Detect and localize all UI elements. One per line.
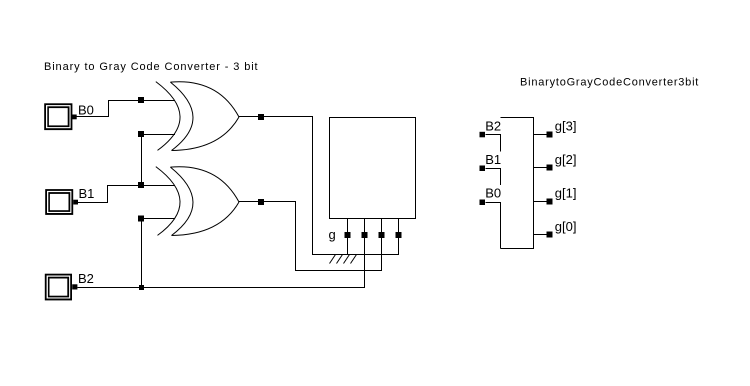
- pin of port B1: [73, 200, 78, 205]
- pin of port B2: [72, 284, 77, 289]
- symbol input B0 stub: [486, 203, 501, 249]
- svg-text:B0: B0: [78, 103, 94, 118]
- junction on U2 input 1: [138, 182, 144, 188]
- svg-text:B1: B1: [485, 152, 501, 167]
- bus combiner block U3: [330, 118, 416, 219]
- wire B1 to XOR U2 input 1: [78, 186, 176, 203]
- symbol input B2 stub: [486, 135, 501, 152]
- svg-text:g: g: [329, 227, 336, 242]
- wire U1.in2 to B1 net (vertical): [141, 135, 143, 186]
- pin of port B0: [72, 115, 77, 120]
- symbol output pin g0: [547, 232, 553, 238]
- junction B2/U2.in2 tee: [139, 285, 144, 290]
- wire U1 input 2 stub: [142, 134, 176, 136]
- symbol input pin B1: [480, 166, 486, 172]
- input port B0: [44, 103, 72, 130]
- symbol input pin B0: [480, 200, 486, 206]
- junction on U2 output: [258, 199, 264, 205]
- wire U2.in2 to B2 net (vertical): [141, 219, 143, 288]
- junction on U2 input 2: [138, 216, 144, 222]
- svg-text:B2: B2: [485, 118, 501, 133]
- symbol output pin g3: [547, 132, 553, 138]
- XOR gate U2: [156, 167, 239, 236]
- symbol output g3 stub: [534, 134, 547, 136]
- symbol output g0 stub: [534, 234, 547, 236]
- input port B1: [45, 189, 73, 215]
- svg-text:BinarytoGrayCodeConverter3bit: BinarytoGrayCodeConverter3bit: [520, 77, 699, 89]
- junction on U1 input 2: [138, 131, 144, 137]
- wire B2 horizontal run: [78, 219, 365, 288]
- symbol output pin g2: [547, 165, 553, 171]
- svg-text:g[1]: g[1]: [555, 185, 577, 200]
- symbol input pin B2: [480, 132, 486, 138]
- symbol output g1 stub: [534, 201, 547, 203]
- pin 2 of U3: [362, 232, 368, 238]
- symbol output g2 stub: [534, 167, 547, 169]
- svg-text:g[0]: g[0]: [555, 219, 577, 234]
- wire U1 output to bus block pin4/pin1: [239, 117, 399, 255]
- pin stub 1 of U3: [347, 219, 349, 255]
- wire U2 output to bus block pin3: [239, 202, 382, 271]
- wire U2 input 2 stub: [142, 218, 176, 220]
- symbol output pin g1: [547, 199, 553, 205]
- svg-text:Binary to Gray Code Converter: Binary to Gray Code Converter - 3 bit: [44, 61, 259, 73]
- wire B0 to XOR U1 input 1: [77, 101, 176, 117]
- pin 4 of U3: [396, 232, 402, 238]
- junction on U1 output: [258, 114, 264, 120]
- symbol input B1 stub: [486, 169, 501, 186]
- pin 1 of U3: [345, 232, 351, 238]
- XOR gate U1: [156, 82, 239, 151]
- svg-text:B0: B0: [485, 185, 501, 200]
- pin 3 of U3: [379, 232, 385, 238]
- input port B2: [45, 274, 72, 301]
- bus width hatch marks: [330, 255, 357, 264]
- junction on U1 input 1: [138, 97, 144, 103]
- symbol body outline: [501, 118, 534, 249]
- svg-text:B2: B2: [78, 271, 94, 286]
- svg-text:g[2]: g[2]: [555, 152, 577, 167]
- svg-text:B1: B1: [79, 186, 95, 201]
- svg-text:g[3]: g[3]: [555, 118, 577, 133]
